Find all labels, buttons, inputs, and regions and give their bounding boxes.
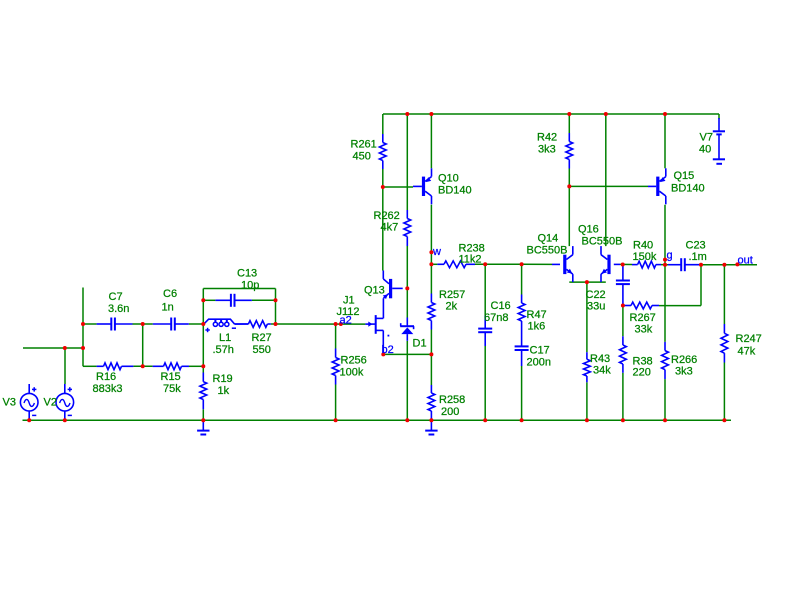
label value .57h <box>213 344 234 356</box>
label value 47k <box>738 346 756 358</box>
wire <box>568 114 570 133</box>
label R262 <box>374 210 400 222</box>
label value 1n <box>162 302 174 314</box>
svg-text:b2: b2 <box>382 344 394 356</box>
wire <box>406 288 408 317</box>
svg-text:R261: R261 <box>351 139 377 151</box>
label value 34k <box>593 365 611 377</box>
label V2 <box>44 396 57 408</box>
svg-text:R266: R266 <box>671 354 697 366</box>
wire <box>382 169 384 187</box>
resistor R43 <box>584 352 591 382</box>
source V3 <box>20 384 38 420</box>
svg-text:450: 450 <box>353 151 371 163</box>
battery V7 <box>713 118 725 164</box>
wire <box>664 205 666 342</box>
junction <box>429 112 433 116</box>
transistor Q10 <box>422 168 432 204</box>
wire <box>382 187 384 271</box>
junction <box>381 185 385 189</box>
junction <box>722 418 726 422</box>
junction <box>201 364 205 368</box>
label C6 <box>163 288 177 300</box>
svg-text:.57h: .57h <box>213 344 234 356</box>
svg-text:150k: 150k <box>633 251 657 263</box>
junction <box>334 322 338 326</box>
label V3 <box>3 396 16 408</box>
junction <box>483 418 487 422</box>
capacitor C23 <box>668 258 701 271</box>
wire <box>664 114 666 168</box>
label R15 <box>161 371 181 383</box>
wire <box>521 264 523 294</box>
junction <box>621 418 625 422</box>
wire <box>83 365 97 367</box>
label V7 <box>700 132 713 144</box>
label Q13 <box>364 285 385 297</box>
resistor R256 <box>332 349 339 385</box>
label value 150k <box>633 251 657 263</box>
node a2 anchor <box>339 322 343 326</box>
svg-text:g: g <box>667 249 673 261</box>
svg-text:R257: R257 <box>439 289 465 301</box>
wire <box>620 263 632 265</box>
svg-text:R258: R258 <box>439 394 465 406</box>
ground <box>425 420 437 434</box>
node out <box>738 254 753 266</box>
wire <box>430 114 432 168</box>
label L1 <box>219 332 231 344</box>
junction <box>567 112 571 116</box>
node w <box>432 246 441 258</box>
label value 450 <box>353 151 371 163</box>
junction <box>274 298 278 302</box>
label C13 <box>237 268 257 280</box>
junction <box>81 346 85 350</box>
resistor R15 <box>153 363 189 370</box>
label value 2k <box>446 301 458 313</box>
label value 4k7 <box>381 222 399 234</box>
junction <box>334 418 338 422</box>
label J1 <box>343 295 355 307</box>
junction <box>429 262 433 266</box>
junction <box>520 262 524 266</box>
label J112 <box>337 306 360 318</box>
junction <box>585 280 589 284</box>
label value .1m <box>689 251 707 263</box>
wire <box>586 282 588 352</box>
svg-text:R247: R247 <box>736 333 762 345</box>
node w anchor <box>429 250 433 254</box>
label Q15 <box>674 170 695 182</box>
svg-text:Q16: Q16 <box>578 224 599 236</box>
svg-text:R16: R16 <box>96 371 116 383</box>
label C7 <box>109 291 123 303</box>
wire <box>203 299 215 301</box>
label value 100k <box>340 367 364 379</box>
wire <box>569 185 648 187</box>
wire <box>23 419 732 421</box>
wire <box>605 114 607 246</box>
svg-text:R27: R27 <box>252 332 272 344</box>
Q14 base lead <box>552 263 560 265</box>
label R42 <box>537 132 557 144</box>
svg-text:w: w <box>432 246 441 258</box>
label R38 <box>633 356 653 368</box>
label D1 <box>413 338 427 350</box>
resistor R47 <box>518 295 525 332</box>
wire <box>133 323 153 325</box>
label R256 <box>341 355 367 367</box>
capacitor C6 <box>153 318 189 331</box>
node a2 <box>340 315 352 327</box>
svg-text:Q15: Q15 <box>674 170 695 182</box>
wire <box>664 379 666 420</box>
label BC550B <box>582 236 623 248</box>
resistor R261 <box>379 134 386 169</box>
junction <box>27 418 31 422</box>
node b2 <box>382 344 394 356</box>
wire <box>484 264 486 315</box>
wire <box>430 205 432 294</box>
svg-text:L1: L1 <box>219 332 231 344</box>
label value 3k3 <box>675 366 693 378</box>
junction <box>699 263 703 267</box>
wire <box>203 288 275 290</box>
label Q10 <box>438 173 459 185</box>
svg-text:550: 550 <box>253 344 271 356</box>
svg-text:10p: 10p <box>241 280 259 292</box>
svg-text:Q13: Q13 <box>364 285 385 297</box>
wire <box>271 323 276 325</box>
wire <box>701 264 757 266</box>
svg-text:34k: 34k <box>593 365 611 377</box>
wire <box>430 330 432 386</box>
junction <box>722 263 726 267</box>
svg-text:a2: a2 <box>340 315 352 327</box>
label R40 <box>633 240 653 252</box>
label value 200 <box>441 406 459 418</box>
capacitor C7 <box>97 318 133 331</box>
svg-text:V7: V7 <box>700 132 713 144</box>
label Q14 <box>538 233 559 245</box>
label R19 <box>213 373 233 385</box>
svg-text:200: 200 <box>441 406 459 418</box>
svg-text:4k7: 4k7 <box>381 222 399 234</box>
label R43 <box>590 353 610 365</box>
wire <box>569 281 606 283</box>
label value 33k <box>635 324 653 336</box>
capacitor C16 <box>478 316 492 347</box>
wire <box>406 114 408 210</box>
wire <box>723 265 725 324</box>
JFET J1 <box>365 315 389 354</box>
svg-text:J1: J1 <box>343 295 355 307</box>
svg-text:1k6: 1k6 <box>528 321 546 333</box>
wire <box>383 353 431 355</box>
svg-text:out: out <box>738 254 753 266</box>
transistor Q15 <box>656 168 666 204</box>
label R16 <box>96 371 116 383</box>
inductor L1 <box>204 319 249 326</box>
transistor Q14 <box>563 246 573 282</box>
label value 550 <box>253 344 271 356</box>
junction <box>405 286 409 290</box>
resistor R258 <box>428 385 435 420</box>
svg-text:47k: 47k <box>738 346 756 358</box>
label value 11k2 <box>459 254 482 266</box>
svg-text:67n8: 67n8 <box>484 312 508 324</box>
wire <box>133 365 152 367</box>
svg-text:3.6n: 3.6n <box>108 303 129 315</box>
svg-text:R19: R19 <box>213 373 233 385</box>
svg-text:R256: R256 <box>341 355 367 367</box>
wire <box>202 289 204 325</box>
resistor R262 <box>404 210 411 246</box>
label value 40 <box>699 144 711 156</box>
wire <box>700 265 702 306</box>
resistor R267 <box>625 302 660 309</box>
wire <box>586 382 588 420</box>
label value 3k3 <box>538 144 556 156</box>
junction <box>429 418 433 422</box>
resistor R27 <box>235 321 271 328</box>
node g <box>667 249 673 261</box>
node b2 anchor <box>381 352 385 356</box>
label R267 <box>630 312 656 324</box>
svg-text:BD140: BD140 <box>671 183 705 195</box>
capacitor C17 <box>515 331 529 366</box>
junction <box>201 322 205 326</box>
source V2 <box>56 384 74 420</box>
wire <box>23 347 83 349</box>
svg-text:3k3: 3k3 <box>538 144 556 156</box>
svg-text:C23: C23 <box>686 240 706 252</box>
resistor R247 <box>721 324 728 363</box>
junction <box>141 364 145 368</box>
wire <box>383 113 719 115</box>
svg-text:75k: 75k <box>163 383 181 395</box>
wire <box>522 263 552 265</box>
svg-text:11k2: 11k2 <box>459 254 482 266</box>
svg-text:R43: R43 <box>590 353 610 365</box>
junction <box>429 352 433 356</box>
label value 33u <box>587 301 605 313</box>
label value 3.6n <box>108 303 129 315</box>
wire <box>521 366 523 420</box>
wire <box>335 385 337 421</box>
capacitor C22 <box>616 265 630 306</box>
label BC550B <box>527 245 568 257</box>
label C22 <box>586 289 606 301</box>
label value 883k3 <box>93 383 123 395</box>
transistor Q16 <box>601 246 611 282</box>
svg-text:V3: V3 <box>3 396 16 408</box>
svg-text:220: 220 <box>633 367 651 379</box>
junction <box>483 262 487 266</box>
wire <box>568 169 570 187</box>
svg-text:R262: R262 <box>374 210 400 222</box>
label value 10p <box>241 280 259 292</box>
label value 220 <box>633 367 651 379</box>
wire <box>275 289 277 325</box>
label R266 <box>671 354 697 366</box>
label value 67n8 <box>484 312 508 324</box>
Q15 base lead <box>648 185 656 187</box>
wire <box>202 409 204 420</box>
svg-text:C7: C7 <box>109 291 123 303</box>
junction <box>141 322 145 326</box>
svg-text:1k: 1k <box>218 385 230 397</box>
junction <box>63 418 67 422</box>
junction <box>81 322 85 326</box>
label BD140 <box>671 183 705 195</box>
svg-text:Q10: Q10 <box>438 173 459 185</box>
junction <box>63 346 67 350</box>
wire <box>252 299 276 301</box>
wire <box>276 323 366 325</box>
junction <box>604 112 608 116</box>
wire <box>718 114 720 119</box>
svg-text:C6: C6 <box>163 288 177 300</box>
svg-text:C17: C17 <box>530 345 550 357</box>
svg-text:R15: R15 <box>161 371 181 383</box>
resistor R266 <box>662 342 669 379</box>
wire <box>568 186 570 246</box>
wire <box>189 365 203 367</box>
node g anchor <box>663 258 667 262</box>
junction <box>621 304 625 308</box>
wire <box>406 341 408 421</box>
svg-text:V2: V2 <box>44 396 57 408</box>
wire <box>475 263 522 265</box>
junction <box>405 418 409 422</box>
wire <box>335 324 337 349</box>
svg-text:3k3: 3k3 <box>675 366 693 378</box>
L1 plus mark <box>205 328 209 332</box>
junction <box>663 112 667 116</box>
svg-text:33k: 33k <box>635 324 653 336</box>
svg-text:40: 40 <box>699 144 711 156</box>
junction <box>621 263 625 267</box>
label value 1k6 <box>528 321 546 333</box>
wire <box>484 346 486 420</box>
svg-text:2k: 2k <box>446 301 458 313</box>
label R27 <box>252 332 272 344</box>
wire <box>659 305 701 307</box>
label R257 <box>439 289 465 301</box>
label value 75k <box>163 383 181 395</box>
resistor R238 <box>437 261 475 268</box>
junction <box>201 298 205 302</box>
wire <box>202 324 204 366</box>
wire <box>142 324 144 366</box>
label R47 <box>527 309 547 321</box>
svg-text:1n: 1n <box>162 302 174 314</box>
label BD140 <box>438 185 472 197</box>
label Q16 <box>578 224 599 236</box>
resistor R38 <box>620 336 627 373</box>
junction <box>201 418 205 422</box>
svg-text:C16: C16 <box>491 300 511 312</box>
label R261 <box>351 139 377 151</box>
svg-text:R40: R40 <box>633 240 653 252</box>
label value 1k <box>218 385 230 397</box>
junction <box>567 184 571 188</box>
resistor R19 <box>200 373 207 410</box>
junction <box>663 263 667 267</box>
wire <box>64 348 66 384</box>
capacitor C13 <box>215 294 252 307</box>
svg-text:R267: R267 <box>630 312 656 324</box>
junction <box>585 418 589 422</box>
resistor R257 <box>428 294 435 330</box>
label R258 <box>439 394 465 406</box>
svg-text:100k: 100k <box>340 367 364 379</box>
svg-text:C22: C22 <box>586 289 606 301</box>
Q10 base lead <box>413 185 422 187</box>
resistor R40 <box>632 261 661 268</box>
svg-text:Q14: Q14 <box>538 233 559 245</box>
svg-text:BC550B: BC550B <box>582 236 623 248</box>
zener diode D1 <box>400 318 414 341</box>
junction <box>663 418 667 422</box>
junction <box>274 322 278 326</box>
label C16 <box>491 300 511 312</box>
wire <box>723 363 725 421</box>
svg-text:D1: D1 <box>413 338 427 350</box>
wire <box>202 366 204 372</box>
wire <box>382 114 384 134</box>
svg-text:BD140: BD140 <box>438 185 472 197</box>
wire <box>622 373 624 421</box>
label C23 <box>686 240 706 252</box>
svg-text:33u: 33u <box>587 301 605 313</box>
svg-text:.1m: .1m <box>689 251 707 263</box>
L1 minus mark <box>232 327 236 329</box>
junction <box>520 418 524 422</box>
wire <box>661 264 668 266</box>
ground <box>197 420 209 434</box>
svg-text:R47: R47 <box>527 309 547 321</box>
transistor Q13 <box>383 271 403 319</box>
resistor R16 <box>97 363 134 370</box>
svg-text:200n: 200n <box>527 357 551 369</box>
node out anchor <box>735 262 739 266</box>
svg-text:C13: C13 <box>237 268 257 280</box>
wire <box>406 246 408 288</box>
wire <box>189 323 205 325</box>
svg-text:BC550B: BC550B <box>527 245 568 257</box>
wire <box>83 323 97 325</box>
wire <box>622 306 624 337</box>
svg-text:883k3: 883k3 <box>93 383 123 395</box>
wire <box>431 263 437 265</box>
wire <box>82 288 84 367</box>
wire <box>383 186 413 188</box>
resistor R42 <box>566 133 573 169</box>
svg-text:R42: R42 <box>537 132 557 144</box>
label C17 <box>530 345 550 357</box>
junction <box>405 112 409 116</box>
label value 200n <box>527 357 551 369</box>
label R238 <box>459 243 485 255</box>
label R247 <box>736 333 762 345</box>
Q16 base lead <box>614 263 620 265</box>
